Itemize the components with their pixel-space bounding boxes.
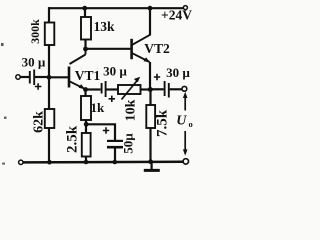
wire VT1 emitter to 1k (84, 90, 86, 97)
polarity + of input capacitor (35, 83, 42, 90)
capacitor 30u output (165, 81, 169, 98)
wire 30u to rheostat (107, 88, 119, 90)
node A (bias divider / base) (47, 75, 52, 80)
polarity + of output capacitor (154, 74, 160, 80)
wire 62k to ground rail (48, 128, 50, 162)
svg-text:7.5k: 7.5k (155, 109, 171, 137)
arrow Uo up (183, 92, 188, 111)
capacitor 30u input (30, 70, 34, 86)
node 13k / VT1 collector / VT2 base (83, 47, 88, 52)
wire 13k bottom lead (84, 40, 86, 50)
wire VT2 base (86, 48, 131, 50)
svg-text:30 µ: 30 µ (166, 65, 190, 80)
wire 300k top lead (48, 7, 50, 22)
wire rheostat to node C (141, 88, 151, 90)
node 50u-ground (113, 160, 118, 165)
capacitor 30u middle (102, 81, 106, 97)
wire 300k bottom lead (48, 45, 50, 77)
wire 50u to ground rail (114, 148, 116, 163)
svg-text:VT2: VT2 (144, 41, 170, 56)
wire 1k to node B (85, 120, 87, 124)
resistor 2.5k (82, 124, 91, 162)
transistor VT2 (132, 8, 150, 89)
wire 13k top lead (84, 7, 86, 17)
wire VT1 emitter to 30u middle (86, 88, 101, 90)
svg-text:13k: 13k (93, 19, 115, 34)
svg-text:+24V: +24V (161, 8, 192, 23)
polarity + of middle capacitor (109, 96, 115, 102)
terminal input ground (19, 160, 23, 164)
terminal +24V (183, 6, 187, 10)
node C (VT2 emitter) (148, 87, 153, 92)
wire 7.5k to ground rail (149, 128, 151, 162)
wire bottom ground rail (23, 161, 183, 164)
svg-text:30 µ: 30 µ (103, 64, 127, 79)
svg-text:50µ: 50µ (121, 133, 136, 154)
terminal input (16, 75, 20, 79)
resistor 13k (81, 17, 91, 40)
capacitor 50u (107, 141, 123, 147)
resistor 7.5k (146, 105, 155, 128)
node 62k-ground (47, 160, 52, 165)
svg-text:300k: 300k (28, 19, 42, 44)
terminal output top (182, 86, 187, 91)
wire top supply rail (48, 7, 183, 9)
terminal output bottom (183, 159, 188, 164)
transistor VT1 (69, 49, 86, 90)
node 13k-rail (82, 6, 87, 11)
rheostat 10k (118, 77, 141, 100)
wire output capacitor to terminal (170, 88, 182, 90)
resistor 300k (45, 23, 55, 46)
svg-text:10k: 10k (124, 99, 139, 121)
node 7.5k-ground (148, 159, 153, 164)
wire VT1 base (49, 76, 68, 78)
ground (144, 162, 160, 170)
speck artifacts (1, 43, 4, 46)
svg-text:30 µ: 30 µ (22, 54, 46, 69)
wire node C to output capacitor (151, 88, 164, 90)
wire node B to 50u (86, 124, 115, 140)
resistor 1k (81, 96, 91, 120)
wire node A to 62k (48, 77, 50, 109)
svg-text:2.5k: 2.5k (65, 125, 81, 153)
node VT1 emitter (83, 87, 88, 92)
svg-text:62k: 62k (32, 111, 47, 133)
arrow Uo down (183, 131, 188, 156)
wire input to capacitor (20, 76, 29, 78)
wire capacitor to node A (35, 76, 50, 78)
resistor 62k (45, 109, 55, 128)
node B (1k / 2.5k / 50u) (84, 122, 89, 127)
wire node C to 7.5k (149, 90, 151, 106)
svg-text:1k: 1k (91, 100, 106, 115)
node VT2 collector-rail (148, 6, 153, 11)
svg-text:VT1: VT1 (75, 68, 101, 83)
polarity + of 50u capacitor (103, 127, 109, 133)
node 2.5k-ground (84, 160, 89, 165)
